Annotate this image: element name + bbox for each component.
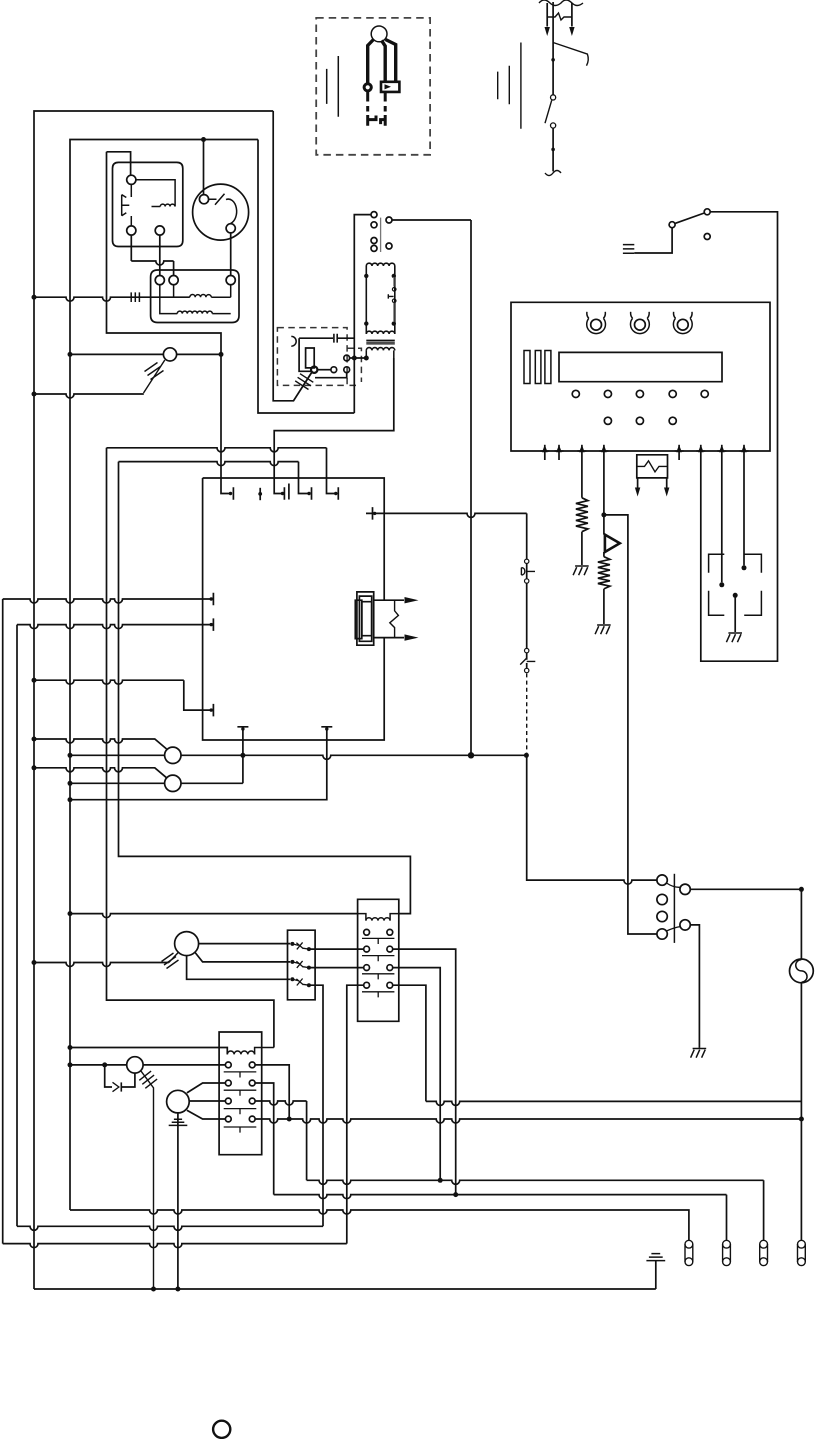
connector CN2 L4	[657, 929, 667, 939]
connector CN2 R2	[680, 920, 690, 930]
board terminal	[719, 445, 725, 453]
board button	[604, 417, 611, 424]
supply main line	[552, 2, 554, 171]
wire B2 row4 right	[255, 1119, 801, 1123]
motor M3 chassis cap	[177, 1113, 179, 1289]
igniter spark gap diagonal	[294, 373, 314, 401]
node junction frame	[201, 137, 206, 142]
wire N inner frame left/top	[70, 140, 258, 1211]
ground G2	[595, 625, 611, 634]
ground G1	[573, 566, 589, 575]
wire R1 to buzzer rail	[690, 888, 801, 890]
wire bank row3 out	[309, 985, 323, 1226]
wire y461 link	[119, 462, 310, 494]
igniter electrode body	[299, 338, 314, 371]
switch bank SW box	[288, 930, 316, 1000]
wire B1 row2 right drop	[393, 949, 456, 1195]
relay K2 contact set	[371, 212, 377, 218]
connector CN2 separator	[673, 874, 675, 943]
control board box	[511, 302, 770, 451]
wire y1180 to lamp PL3	[307, 1180, 764, 1240]
wire buzzer rail	[800, 889, 802, 1240]
wire relay to transformer T1 b	[131, 235, 173, 275]
connector CN2 R1	[680, 884, 690, 894]
block B2 divider	[224, 1127, 257, 1133]
wire M3 row3	[189, 1100, 225, 1102]
relay K1 pin top	[127, 175, 136, 184]
relay K1 coil	[136, 180, 175, 207]
wire mains capacitor line y297	[34, 297, 190, 301]
board indicator bars	[524, 351, 551, 384]
board terminal	[676, 445, 682, 453]
knob K2	[635, 319, 646, 330]
block B1 divider	[362, 974, 394, 980]
chain pin	[525, 668, 529, 672]
wire y962 selector feed	[34, 963, 169, 967]
socket bracket TR	[744, 554, 761, 572]
node junction	[742, 565, 747, 570]
plug left lead	[368, 40, 374, 84]
wire board to socket b	[743, 460, 745, 565]
PCB bottom terminal x327	[70, 727, 332, 800]
switch S5 contacts	[704, 209, 710, 215]
supply cut squiggle	[539, 0, 583, 6]
switch S2 blade	[144, 360, 165, 393]
board button	[604, 390, 611, 397]
chain dashed lead	[526, 673, 528, 754]
wire x106.5 capacitor feed drop	[107, 152, 231, 494]
terminal pin PCB-3	[284, 484, 289, 500]
wire M3 row4	[187, 1110, 226, 1119]
block B2 divider	[224, 1109, 257, 1115]
wire motor M1 to T1	[230, 233, 232, 276]
wire B2 row3 right	[255, 1101, 307, 1180]
node junctions	[68, 1062, 73, 1067]
node junction	[32, 678, 37, 683]
transformer T1 upper winding	[173, 285, 175, 298]
wire chain to connector	[527, 755, 657, 884]
spark capacitor loop	[105, 1065, 135, 1087]
node junctions y755	[68, 753, 73, 758]
wire switch line y394	[34, 394, 144, 398]
ground G4	[691, 1049, 707, 1058]
valve V2 circle	[165, 775, 181, 791]
board button	[572, 390, 579, 397]
wire bus y1226 from x17	[17, 625, 323, 1231]
sensor S4 diagonal	[139, 1071, 157, 1289]
igniter pins	[331, 367, 337, 373]
board terminal	[698, 445, 704, 453]
node junction	[438, 1178, 443, 1183]
wire L1 outer frame left/top	[34, 111, 273, 1289]
block B2 divider	[224, 1090, 257, 1096]
node junction	[32, 392, 37, 397]
flame sensor arc	[291, 336, 296, 346]
node junction	[287, 1117, 292, 1122]
board button	[669, 390, 676, 397]
wire y768 valve feed	[34, 768, 167, 778]
wire S5 to earth	[634, 228, 672, 253]
switch block B1 box	[358, 899, 399, 1021]
earth E2	[646, 1254, 665, 1261]
fuse F2 lead b	[666, 478, 668, 488]
plug mid lead	[382, 41, 386, 82]
wire B2 row1 right	[255, 1065, 289, 1117]
wire S3 row1	[199, 943, 291, 945]
node junction	[68, 797, 73, 802]
igniter capacitor line	[299, 337, 354, 339]
node junction	[32, 295, 37, 300]
knob K1	[591, 319, 602, 330]
transformer T1 pin3	[226, 276, 235, 285]
switch block B1 coil	[358, 914, 366, 921]
chain pin	[525, 559, 529, 563]
node junction	[799, 887, 804, 892]
board button	[636, 390, 643, 397]
fuse resistor box F2	[637, 455, 668, 478]
plug ring	[364, 84, 371, 91]
node junction	[68, 1045, 73, 1050]
wire x118.5 drop	[119, 462, 411, 914]
transformer T1 lower winding	[160, 285, 178, 314]
resistor R2	[598, 552, 610, 624]
earth bars E1	[623, 245, 634, 254]
block B2 pins row1	[225, 1062, 231, 1068]
lamp PL2	[723, 1240, 731, 1248]
capacitor C1 bars	[131, 292, 139, 302]
chain pin	[525, 648, 529, 652]
motor M1 contact	[209, 194, 237, 224]
plug head circle	[371, 26, 387, 42]
ground G3	[726, 633, 742, 642]
motor M1 pin out	[226, 224, 235, 233]
board terminal	[579, 445, 585, 453]
wire S3 row3	[187, 956, 291, 980]
plug dashed box	[316, 18, 430, 155]
plug left lower	[368, 92, 376, 126]
block B1 pins row2	[364, 946, 370, 952]
wire M3 row2	[187, 1083, 226, 1093]
motor M1 timer circle	[193, 184, 249, 240]
capacitor C2	[334, 334, 337, 343]
wire B1 row3 right drop	[393, 968, 441, 1181]
block B1 pins row1	[364, 929, 370, 935]
supply arrow b	[569, 27, 574, 36]
wire x354 riser	[354, 215, 371, 413]
board display window	[559, 352, 722, 381]
wire switch line y354	[70, 353, 221, 355]
wire x106.5 drop	[107, 448, 274, 1048]
connector CN1 shells	[357, 592, 374, 645]
wire B1 row4 right drop	[393, 985, 426, 1101]
board terminal	[741, 445, 747, 453]
wire frame to motor M1	[203, 140, 205, 195]
wire right rail x471	[470, 220, 472, 753]
plug cable marks	[327, 56, 339, 117]
board terminal	[556, 445, 562, 453]
knob K3	[677, 319, 688, 330]
valve V1 circle	[165, 747, 181, 763]
wire K2 to right rail	[392, 219, 471, 221]
wire S3 row2	[195, 953, 290, 962]
wire R2 to ground	[690, 925, 699, 1048]
transformer T2 primary	[365, 266, 367, 334]
switch bank contact 2	[290, 960, 294, 964]
wire B1 row4 left drop	[347, 985, 364, 1243]
block B1 pins row3	[364, 965, 370, 971]
PCB right terminal y513	[366, 513, 527, 517]
wire stub to relay K1	[107, 152, 131, 175]
plug fuse box	[381, 82, 399, 92]
board button	[701, 390, 708, 397]
transformer T1 box	[151, 270, 239, 323]
block B1 pins row4	[364, 982, 370, 988]
relay K1 contact	[122, 184, 132, 226]
wire bus y1210 to lamp PL1	[70, 1210, 689, 1240]
breaker branch	[553, 43, 588, 66]
block B1 divider	[362, 992, 394, 998]
relay K1 box	[113, 162, 183, 246]
node junction	[601, 512, 606, 517]
relay K2 actuator bar	[380, 218, 382, 252]
socket bracket BR	[744, 591, 761, 615]
block B1 divider	[362, 956, 394, 962]
fuse F2 lead a	[637, 478, 639, 488]
wire x258 drop	[258, 140, 354, 414]
terminal stub PCB-2	[259, 488, 261, 500]
board button	[636, 417, 643, 424]
wire y1193 to lamp PL2	[274, 1195, 727, 1241]
harness arrow a	[374, 599, 404, 601]
sensor S4 circle	[127, 1057, 143, 1073]
socket bracket BL	[709, 591, 725, 615]
block B2 divider	[224, 1072, 257, 1078]
plug right lower	[381, 92, 386, 126]
transformer T1 pin1	[155, 276, 164, 285]
PCB left terminal y599	[3, 593, 214, 606]
block B2 pins row4	[225, 1116, 231, 1122]
connector CN2 mate b	[667, 927, 681, 932]
node junctions y358	[352, 356, 357, 361]
wire y1065 sensor line	[70, 1064, 225, 1066]
block B2 pins row3	[225, 1098, 231, 1104]
supply arrow a	[545, 27, 550, 36]
wire S5 loop	[701, 212, 778, 661]
motor M3 circle	[167, 1090, 190, 1113]
wire y739 valve feed	[34, 739, 167, 749]
wire T2 secondary right drop	[274, 358, 394, 494]
switch bank contact 3	[290, 977, 294, 981]
node junction	[799, 1117, 804, 1122]
page mark circle	[213, 1421, 230, 1438]
wire bank row2 out	[309, 967, 364, 969]
wire igniter pin stub	[315, 373, 347, 378]
node junction	[32, 765, 37, 770]
buzzer BZ1 triangle	[605, 535, 620, 552]
connector CN2 L1	[657, 875, 667, 885]
wire y447 link	[107, 448, 336, 494]
wire x273 drop to igniter	[273, 111, 311, 401]
PCB bottom terminal x243	[237, 727, 248, 784]
switch S5 blade	[675, 213, 704, 223]
node junction	[68, 781, 73, 786]
node dots	[551, 58, 555, 62]
terminal pin PCB-1	[232, 487, 234, 500]
board terminal	[542, 445, 548, 453]
buzzer BZ2	[790, 959, 814, 983]
wire igniter pin link	[317, 369, 331, 371]
PCB main box	[203, 478, 385, 740]
relay K1 pin bot-left	[127, 226, 136, 235]
wire board to socket a	[721, 460, 723, 582]
dot junctions on bus y1289	[151, 1287, 156, 1292]
wire y783 line	[70, 782, 243, 784]
board button	[669, 417, 676, 424]
wire bank row1 out	[309, 948, 364, 950]
harness arrow b	[374, 637, 404, 639]
terminal pin PCB-5	[337, 487, 339, 500]
cable marks	[498, 43, 521, 129]
resistor R1 drop	[576, 460, 588, 565]
wire relay to transformer T1 a	[159, 235, 161, 275]
node junction	[32, 737, 37, 742]
wire chain x526	[526, 513, 528, 668]
chain pin	[525, 579, 529, 583]
node junction	[719, 582, 724, 587]
selector S3 blade	[162, 953, 179, 969]
wire flame rod to transformer	[350, 357, 367, 359]
transformer T2 dots	[364, 274, 368, 278]
lamp PL4	[798, 1240, 806, 1248]
PCB left terminal y680-710	[34, 680, 213, 716]
wire y755 line	[70, 755, 526, 759]
socket center pin	[733, 593, 738, 598]
node junction	[68, 911, 73, 916]
thermal switch in T2	[393, 277, 395, 287]
socket bracket TL	[709, 554, 725, 572]
wire bus y1244 from x2.7	[3, 599, 347, 1248]
wire B2 row2 right	[255, 1083, 274, 1195]
wire x603.9 drop	[603, 460, 605, 535]
wire y1101 to lamp PL4	[426, 1101, 802, 1105]
motor M1 pin in	[199, 195, 208, 204]
relay K1 pin bot-mid	[155, 226, 164, 235]
node junction	[32, 960, 37, 965]
harness break zigzag	[390, 600, 399, 637]
wire y1047 coil feed	[70, 1048, 227, 1055]
plug right lead	[386, 40, 396, 82]
connector CN2 L3	[657, 911, 667, 921]
supply leads	[547, 3, 572, 27]
transformer T2 core	[366, 340, 395, 344]
board terminal	[601, 445, 607, 453]
wire y914 coil feed	[70, 914, 358, 918]
transformer T1 pin2	[169, 276, 178, 285]
PCB left terminal y624	[17, 618, 213, 631]
breaker contacts	[551, 95, 556, 100]
supply link break	[547, 13, 572, 20]
switch block B2 box	[219, 1032, 262, 1155]
lamp PL3	[760, 1240, 768, 1248]
node junctions y354	[68, 352, 73, 357]
node junction	[453, 1192, 458, 1197]
selector S3 circle	[175, 932, 199, 956]
connector CN2 mate a	[667, 883, 681, 887]
block B2 pins row2	[225, 1080, 231, 1086]
igniter dashed enclosure	[277, 328, 347, 386]
lamp PL1	[685, 1240, 693, 1248]
connector CN2 L2	[657, 894, 667, 904]
wire y514 link	[604, 515, 657, 934]
wire L1 bus bottom to earth corner	[34, 1288, 656, 1290]
switch S2 sensor circle	[163, 348, 176, 361]
supply end squiggle	[545, 171, 561, 176]
chain hook Y	[520, 658, 535, 665]
terminal pin PCB-4	[311, 487, 313, 500]
igniter tip	[311, 367, 317, 373]
breaker blade	[545, 100, 552, 123]
switch bank contact 1	[290, 942, 294, 946]
chain spade D	[521, 568, 535, 575]
block B1 divider	[362, 938, 394, 944]
transformer T2 secondary	[366, 348, 395, 351]
